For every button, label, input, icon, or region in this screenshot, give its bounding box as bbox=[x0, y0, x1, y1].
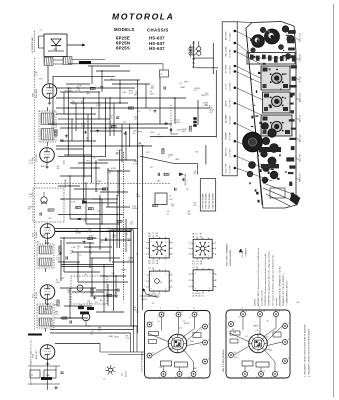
svg-text:R7: R7 bbox=[266, 336, 268, 338]
svg-text:C8 & 1ST IF MODULE: C8 & 1ST IF MODULE bbox=[142, 351, 144, 372]
svg-text:operation.: operation. bbox=[275, 296, 278, 306]
svg-text:7: 7 bbox=[151, 242, 152, 244]
svg-text:7: 7 bbox=[146, 243, 147, 245]
svg-text:3.3K: 3.3K bbox=[122, 92, 127, 94]
svg-text:VOLUME: VOLUME bbox=[65, 179, 67, 188]
svg-text:6: 6 bbox=[145, 358, 146, 360]
svg-text:OUT 85V: OUT 85V bbox=[300, 153, 302, 162]
svg-text:.0047: .0047 bbox=[180, 87, 186, 89]
svg-text:C9 · R7: C9 · R7 bbox=[192, 267, 198, 269]
svg-text:4: 4 bbox=[145, 327, 146, 329]
svg-text:4: 4 bbox=[281, 329, 282, 331]
svg-text:12: 12 bbox=[263, 311, 265, 313]
svg-text:6: 6 bbox=[215, 280, 216, 282]
svg-text:2: 2 bbox=[146, 254, 147, 256]
svg-text:.0047: .0047 bbox=[40, 166, 46, 168]
svg-text:C4: C4 bbox=[194, 49, 196, 51]
svg-text:C3: C3 bbox=[256, 330, 258, 332]
svg-text:PRINTED BOARD: PRINTED BOARD bbox=[205, 193, 208, 209]
svg-text:C5: C5 bbox=[160, 74, 162, 76]
svg-text:13: 13 bbox=[160, 282, 162, 284]
svg-text:IF 455: IF 455 bbox=[300, 75, 302, 82]
svg-text:10: 10 bbox=[234, 352, 236, 354]
svg-text:R1: R1 bbox=[172, 346, 174, 348]
svg-text:DET 0.8: DET 0.8 bbox=[300, 114, 302, 122]
svg-text:3: 3 bbox=[208, 358, 209, 360]
svg-text:8: 8 bbox=[264, 371, 265, 373]
svg-text:AF 3.4V: AF 3.4V bbox=[299, 134, 302, 142]
svg-text:SLUG ADJ: SLUG ADJ bbox=[228, 165, 231, 174]
svg-text:5: 5 bbox=[151, 289, 152, 291]
svg-text:470K: 470K bbox=[190, 341, 195, 343]
svg-text:9: 9 bbox=[146, 248, 147, 250]
svg-text:455KC: 455KC bbox=[76, 232, 83, 234]
svg-text:3.3K: 3.3K bbox=[35, 241, 40, 243]
svg-text:OSC CONV: OSC CONV bbox=[225, 46, 227, 57]
svg-text:100: 100 bbox=[233, 332, 236, 334]
svg-text:4: 4 bbox=[189, 254, 190, 256]
svg-text:SLUG ADJ: SLUG ADJ bbox=[228, 99, 231, 108]
svg-text:13 OR 1/4 · 2C: 13 OR 1/4 · 2C bbox=[192, 296, 205, 298]
svg-text:3: 3 bbox=[201, 329, 202, 331]
svg-text:4.7K: 4.7K bbox=[29, 162, 34, 164]
svg-text:= CHASSIS: = CHASSIS bbox=[245, 247, 248, 258]
svg-text:7: 7 bbox=[145, 242, 146, 244]
svg-text:4: 4 bbox=[189, 280, 190, 282]
svg-text:CHASSIS: CHASSIS bbox=[147, 28, 169, 33]
svg-text:7: 7 bbox=[145, 280, 146, 282]
svg-text:MODELS: MODELS bbox=[114, 27, 135, 32]
svg-text:AUD OUT: AUD OUT bbox=[224, 147, 227, 157]
svg-text:AVC: AVC bbox=[175, 158, 180, 161]
svg-text:R7: R7 bbox=[232, 329, 234, 331]
svg-text:12: 12 bbox=[189, 317, 191, 319]
svg-text:1: 1 bbox=[246, 311, 247, 313]
svg-text:10K: 10K bbox=[150, 132, 154, 134]
svg-text:2: 2 bbox=[271, 377, 272, 379]
svg-text:220K: 220K bbox=[136, 196, 141, 198]
svg-text:5: 5 bbox=[248, 371, 249, 373]
svg-text:5: 5 bbox=[209, 288, 210, 290]
svg-text:7: 7 bbox=[145, 248, 146, 250]
svg-text:COPYRIGHT 1958 HOWARD W. SAMS: COPYRIGHT 1958 HOWARD W. SAMS & CO. INC. bbox=[30, 338, 33, 385]
svg-text:R9: R9 bbox=[182, 351, 184, 353]
svg-text:.0047: .0047 bbox=[114, 337, 120, 339]
svg-text:9: 9 bbox=[151, 255, 152, 257]
svg-text:FILAMENT CKT - PIN TO SUPPLY.: FILAMENT CKT - PIN TO SUPPLY. bbox=[282, 273, 285, 306]
svg-text:SPK: SPK bbox=[46, 375, 51, 377]
svg-text:P1: P1 bbox=[152, 303, 154, 305]
svg-text:12: 12 bbox=[238, 317, 240, 319]
svg-text:2: 2 bbox=[171, 274, 172, 276]
svg-text:2: 2 bbox=[171, 248, 172, 250]
svg-text:3: 3 bbox=[288, 358, 289, 360]
svg-text:R4 · C3 · 1B: R4 · C3 · 1B bbox=[192, 261, 203, 263]
svg-text:RF TRIM: RF TRIM bbox=[225, 65, 227, 73]
svg-text:AUD OUT: AUD OUT bbox=[35, 349, 38, 359]
svg-text:MOTOROLA: MOTOROLA bbox=[112, 12, 174, 22]
svg-text:2: 2 bbox=[171, 286, 172, 288]
svg-text:7: 7 bbox=[256, 317, 257, 319]
svg-text:4: 4 bbox=[288, 339, 289, 341]
svg-text:R9: R9 bbox=[160, 367, 162, 369]
svg-text:1MEG: 1MEG bbox=[132, 208, 138, 210]
svg-text:2: 2 bbox=[288, 323, 289, 325]
svg-text:C2: C2 bbox=[103, 379, 105, 381]
svg-text:SLUG ADJ: SLUG ADJ bbox=[228, 65, 231, 74]
svg-text:C6: C6 bbox=[194, 54, 196, 56]
svg-text:HS-637: HS-637 bbox=[149, 46, 165, 51]
svg-text:8: 8 bbox=[208, 242, 209, 244]
svg-text:11: 11 bbox=[256, 377, 258, 379]
svg-text:7: 7 bbox=[159, 377, 160, 379]
svg-text:6: 6 bbox=[278, 371, 279, 373]
svg-text:4: 4 bbox=[189, 248, 190, 250]
svg-text:.0047: .0047 bbox=[88, 236, 94, 238]
svg-text:SLUG ADJ: SLUG ADJ bbox=[228, 49, 231, 58]
svg-text:4: 4 bbox=[189, 242, 190, 244]
svg-text:1.5K: 1.5K bbox=[137, 142, 142, 144]
svg-text:2: 2 bbox=[171, 280, 172, 282]
svg-text:1A · C7 · R2: 1A · C7 · R2 bbox=[192, 235, 202, 238]
svg-text:1MEG: 1MEG bbox=[121, 269, 127, 271]
svg-text:5: 5 bbox=[157, 317, 158, 319]
svg-text:C12: C12 bbox=[179, 328, 182, 330]
svg-text:2: 2 bbox=[208, 323, 209, 325]
svg-text:VOLTAGES - Measured pin point: VOLTAGES - Measured pin point indicated … bbox=[264, 254, 267, 306]
svg-text:SLUG ADJ: SLUG ADJ bbox=[228, 132, 231, 141]
svg-text:= B− A−: = B− A− bbox=[241, 251, 244, 258]
svg-text:.0047: .0047 bbox=[108, 336, 114, 338]
svg-text:R4 · C3 · 1B: R4 · C3 · 1B bbox=[148, 261, 159, 263]
svg-text:1: 1 bbox=[281, 364, 282, 366]
svg-text:4: 4 bbox=[281, 345, 282, 347]
svg-text:4: 4 bbox=[165, 242, 166, 244]
svg-text:DET AMP: DET AMP bbox=[224, 114, 227, 123]
svg-text:455KC: 455KC bbox=[184, 323, 190, 325]
svg-text:1: 1 bbox=[146, 275, 147, 277]
svg-text:4: 4 bbox=[189, 286, 190, 288]
svg-text:4.7K: 4.7K bbox=[76, 90, 81, 92]
svg-text:SLUG ADJ: SLUG ADJ bbox=[228, 148, 231, 157]
svg-text:value shown is for battery ope: value shown is for battery operation and… bbox=[271, 254, 274, 306]
svg-text:6: 6 bbox=[215, 286, 216, 288]
svg-text:10: 10 bbox=[188, 377, 190, 379]
svg-text:1: 1 bbox=[190, 287, 191, 289]
svg-text:R3: R3 bbox=[269, 350, 271, 352]
svg-text:8: 8 bbox=[190, 249, 191, 251]
svg-text:5: 5 bbox=[166, 371, 167, 373]
svg-text:7: 7 bbox=[197, 311, 198, 313]
svg-text:7: 7 bbox=[190, 243, 191, 245]
svg-text:.0047: .0047 bbox=[87, 163, 93, 165]
svg-text:* = MEASURE IN CIRCUIT: * = MEASURE IN CIRCUIT bbox=[285, 281, 288, 306]
svg-text:6: 6 bbox=[215, 274, 216, 276]
svg-text:1: 1 bbox=[164, 311, 165, 313]
svg-text:.0047: .0047 bbox=[176, 130, 182, 132]
svg-text:ANT ROD: ANT ROD bbox=[224, 31, 227, 40]
svg-text:PRINTED BOARD: PRINTED BOARD bbox=[208, 193, 211, 209]
svg-text:B-: B- bbox=[206, 105, 208, 107]
svg-text:.0047: .0047 bbox=[176, 122, 182, 124]
svg-text:6: 6 bbox=[196, 371, 197, 373]
svg-text:.0047: .0047 bbox=[192, 368, 197, 370]
svg-text:9: 9 bbox=[195, 255, 196, 257]
svg-text:7: 7 bbox=[209, 273, 210, 275]
svg-text:1: 1 bbox=[241, 377, 242, 379]
svg-text:4: 4 bbox=[227, 327, 228, 329]
svg-text:WIRING DIAGRAM: WIRING DIAGRAM bbox=[229, 249, 232, 266]
svg-text:7: 7 bbox=[145, 286, 146, 288]
svg-text:2: 2 bbox=[190, 280, 191, 282]
svg-text:7: 7 bbox=[279, 311, 280, 313]
svg-text:AF AMP: AF AMP bbox=[224, 132, 227, 140]
svg-text:1MEG: 1MEG bbox=[176, 335, 182, 337]
svg-text:1MEG: 1MEG bbox=[139, 146, 145, 148]
svg-text:1: 1 bbox=[146, 287, 147, 289]
svg-text:1.5K: 1.5K bbox=[71, 247, 76, 249]
svg-text:2: 2 bbox=[171, 254, 172, 256]
svg-text:6: 6 bbox=[215, 248, 216, 250]
svg-text:9: 9 bbox=[195, 288, 196, 290]
svg-text:9: 9 bbox=[195, 273, 196, 275]
svg-text:9: 9 bbox=[152, 321, 153, 323]
svg-text:SPKR VC: SPKR VC bbox=[300, 173, 302, 182]
svg-text:7: 7 bbox=[145, 274, 146, 276]
svg-text:R4 · C3 · 1B: R4 · C3 · 1B bbox=[148, 263, 159, 265]
svg-text:SPKR: SPKR bbox=[141, 299, 147, 301]
svg-text:11: 11 bbox=[242, 308, 244, 310]
svg-text:6: 6 bbox=[215, 254, 216, 256]
svg-text:3.3K: 3.3K bbox=[107, 172, 112, 174]
svg-text:BATTERY TEST - Measure volts t: BATTERY TEST - Measure volts to VOL cont… bbox=[257, 247, 260, 306]
svg-text:CONV B: CONV B bbox=[300, 54, 302, 62]
svg-text:4: 4 bbox=[160, 308, 161, 310]
svg-text:9: 9 bbox=[234, 321, 235, 323]
svg-text:11: 11 bbox=[259, 308, 261, 310]
svg-text:PILOT: PILOT bbox=[126, 370, 128, 377]
svg-text:VTVM/VOM. No signal input. Whe: VTVM/VOM. No signal input. Where the vol… bbox=[268, 251, 271, 306]
svg-text:1A · C7 · R2: 1A · C7 · R2 bbox=[148, 235, 158, 238]
svg-text:4: 4 bbox=[208, 339, 209, 341]
svg-text:1: 1 bbox=[208, 255, 209, 257]
svg-text:L1 FERRITE ANT: L1 FERRITE ANT bbox=[31, 36, 34, 53]
svg-text:NOTES:: NOTES: bbox=[255, 298, 257, 306]
svg-text:5: 5 bbox=[190, 274, 191, 276]
svg-text:assembly normal.: assembly normal. bbox=[261, 290, 264, 306]
svg-text:C5: C5 bbox=[157, 321, 159, 323]
svg-text:1MEG: 1MEG bbox=[253, 326, 259, 328]
svg-text:→B+: →B+ bbox=[295, 302, 300, 304]
svg-text:1.5K: 1.5K bbox=[125, 338, 130, 340]
svg-text:2: 2 bbox=[272, 317, 273, 319]
svg-text:7: 7 bbox=[177, 308, 178, 310]
svg-text:470K: 470K bbox=[96, 105, 101, 107]
svg-text:1.5K: 1.5K bbox=[86, 326, 91, 328]
svg-text:4: 4 bbox=[189, 274, 190, 276]
svg-text:6: 6 bbox=[215, 242, 216, 244]
svg-text:5: 5 bbox=[275, 308, 276, 310]
svg-text:SLUG ADJ: SLUG ADJ bbox=[228, 115, 231, 124]
svg-text:2: 2 bbox=[227, 358, 228, 360]
svg-text:PNP AMP: PNP AMP bbox=[35, 88, 38, 98]
svg-text:12: 12 bbox=[181, 311, 183, 313]
svg-text:1A · C7 · R2: 1A · C7 · R2 bbox=[192, 233, 202, 236]
svg-text:SLUG ADJ: SLUG ADJ bbox=[228, 82, 231, 91]
svg-text:4: 4 bbox=[201, 364, 202, 366]
svg-text:2ND IF & DET MODULE: 2ND IF & DET MODULE bbox=[223, 349, 225, 372]
svg-text:11: 11 bbox=[193, 308, 195, 310]
svg-text:1.5K: 1.5K bbox=[81, 126, 86, 128]
svg-text:4.7K: 4.7K bbox=[60, 278, 65, 280]
svg-text:7: 7 bbox=[145, 254, 146, 256]
svg-text:PHOTOFACT STANDARD: PHOTOFACT STANDARD bbox=[226, 243, 229, 266]
svg-text:VOL CTRL: VOL CTRL bbox=[225, 162, 227, 172]
svg-text:1ST IF: 1ST IF bbox=[225, 83, 227, 90]
svg-text:2: 2 bbox=[171, 242, 172, 244]
svg-text:4.7K: 4.7K bbox=[133, 163, 138, 165]
svg-text:AVC: AVC bbox=[116, 152, 121, 155]
svg-text:10: 10 bbox=[152, 352, 154, 354]
svg-text:4: 4 bbox=[151, 274, 152, 276]
svg-text:2. INDICATES CONNECTION TO BOT: 2. INDICATES CONNECTION TO BOTTOM OF MOD… bbox=[304, 323, 307, 377]
svg-text:6P25S: 6P25S bbox=[116, 46, 130, 51]
svg-text:8: 8 bbox=[190, 254, 191, 256]
svg-text:13 OR 1/4 · 2C: 13 OR 1/4 · 2C bbox=[192, 293, 205, 295]
svg-text:1.5K: 1.5K bbox=[87, 303, 92, 305]
svg-text:4: 4 bbox=[174, 317, 175, 319]
svg-text:2: 2 bbox=[165, 274, 166, 276]
svg-text:DET AF: DET AF bbox=[35, 291, 38, 299]
svg-text:AMP 1.2V: AMP 1.2V bbox=[299, 92, 302, 102]
svg-text:T2: T2 bbox=[169, 196, 171, 198]
svg-text:1: 1 bbox=[195, 242, 196, 244]
svg-text:1A · C7 · R2: 1A · C7 · R2 bbox=[148, 232, 158, 235]
svg-text:1. INDICATES CONNECTION TO TOP: 1. INDICATES CONNECTION TO TOP OF MODULE… bbox=[308, 328, 311, 377]
svg-text:MEASURED ON AC OPERATION = 117: MEASURED ON AC OPERATION = 117 AC bbox=[278, 266, 281, 306]
svg-text:2ND IF: 2ND IF bbox=[225, 99, 227, 106]
svg-text:OSC 1.5V: OSC 1.5V bbox=[300, 32, 302, 42]
svg-text:9: 9 bbox=[165, 255, 166, 257]
svg-text:12: 12 bbox=[200, 345, 202, 347]
svg-text:PRINTED BOARD: PRINTED BOARD bbox=[201, 193, 204, 209]
svg-text:.0047: .0047 bbox=[149, 93, 155, 95]
svg-text:4: 4 bbox=[165, 289, 166, 291]
svg-text:C9 · R7: C9 · R7 bbox=[148, 268, 154, 270]
svg-text:OSC MIX: OSC MIX bbox=[36, 153, 38, 162]
svg-text:SLUG ADJ: SLUG ADJ bbox=[228, 32, 231, 41]
svg-text:1.5K: 1.5K bbox=[71, 201, 76, 203]
svg-text:IF AMP: IF AMP bbox=[35, 231, 38, 238]
svg-text:6: 6 bbox=[175, 377, 176, 379]
svg-text:PRINTED BOARD: PRINTED BOARD bbox=[212, 193, 215, 209]
svg-text:R4 · C3 · 1B: R4 · C3 · 1B bbox=[192, 264, 203, 266]
svg-text:.02: .02 bbox=[245, 336, 248, 338]
svg-text:6: 6 bbox=[146, 281, 147, 283]
svg-text:8: 8 bbox=[182, 371, 183, 373]
